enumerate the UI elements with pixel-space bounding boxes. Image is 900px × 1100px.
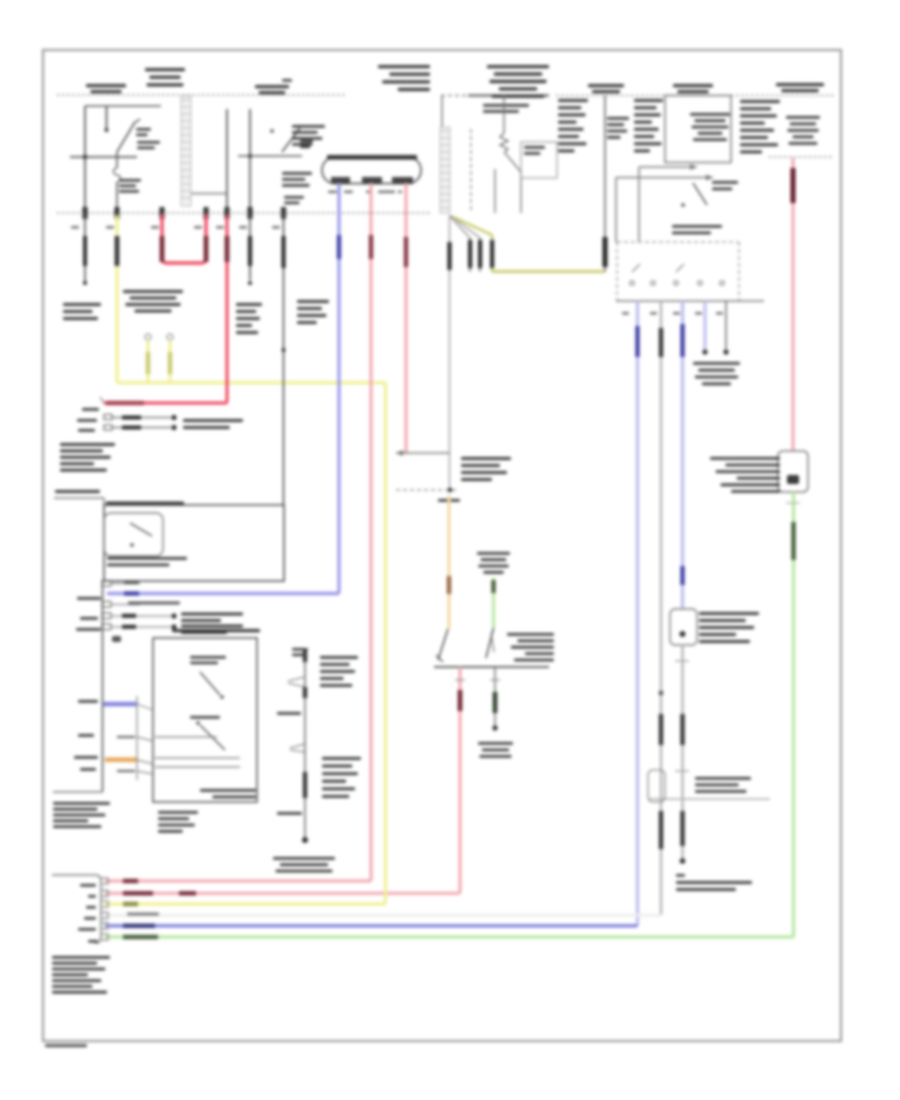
stub: dark into switch — [117, 736, 135, 738]
label: header center-left 4-line — [378, 65, 430, 91]
label: relay name 2-line — [524, 146, 545, 155]
label: right of small box 5-line — [699, 612, 759, 643]
wire: vertical x=442 below bus — [441, 96, 443, 128]
wire: arrow horizontal y=453 — [396, 450, 450, 456]
label: noise filter 3-line — [695, 777, 751, 793]
connector: pin bars on bus y=213 — [82, 207, 286, 219]
junction: ECU pin row 3 — [102, 602, 180, 608]
switch: relay switch diagonal — [681, 183, 707, 207]
relay: small box outline — [521, 142, 557, 178]
label: bottom connector name 7-line — [52, 956, 110, 994]
label: stadium title on top edge — [327, 155, 417, 160]
label: small left of stadium — [300, 140, 313, 148]
label: mid block right of 250 — [236, 303, 262, 334]
wire: vertical x=616 — [615, 178, 617, 243]
junction: diag ticks into box — [137, 704, 153, 774]
page border frame — [43, 50, 841, 1041]
switch: orange switch diagonal — [436, 629, 448, 662]
junction: ECU pin row 1 — [102, 581, 140, 587]
terminal: yellow stub 2 — [167, 334, 173, 382]
stub: dark into switch 2 — [117, 770, 135, 772]
wire: red x=227 long — [225, 215, 230, 403]
label: left of DRL relay 6-line — [710, 457, 780, 493]
wire: black x=283.5 long — [281, 215, 285, 505]
switch: head position contacts — [190, 656, 226, 699]
label: power source block 5-line — [60, 443, 115, 472]
bus: top dashed line right section — [556, 95, 836, 97]
label: switch box title — [172, 629, 260, 632]
wire: diagonal to x=521 — [505, 153, 521, 213]
wire: horizontal box top y=106 — [85, 105, 161, 107]
wire: blue horizontal y=925.8 bottom — [105, 924, 638, 928]
wire: fanout diagonals from band — [449, 215, 492, 238]
label: pin numbers under bus — [71, 226, 280, 229]
wire: inside box line 2 — [155, 757, 240, 759]
wire: yellow x=117 — [115, 215, 120, 383]
wire: black stub x=726 — [723, 301, 728, 355]
wire: vertical from bus x=85 — [84, 106, 86, 215]
stub: orange into switch — [105, 757, 137, 762]
wire: key stub x=106 — [105, 106, 109, 132]
relay: internal contacts — [630, 264, 724, 285]
bus: junction block bus line center — [441, 95, 549, 97]
wire: red x=371 vertical long — [369, 183, 373, 881]
label: right of 283 block — [297, 300, 329, 324]
label: ignition switch name — [136, 128, 151, 136]
label: ECU title on top edge — [106, 502, 184, 505]
label: header fuse block 3-line — [145, 68, 185, 87]
wire: black x=305 — [302, 648, 308, 843]
wire: black x=250 stub — [248, 215, 252, 285]
wire: inside box line 3 — [155, 766, 240, 768]
label: x305 low text — [277, 812, 302, 815]
wire: green horizontal y=937 bottom — [105, 935, 794, 939]
label: switch right 4-line — [292, 125, 325, 146]
wire: pin column x=137 — [136, 696, 138, 780]
label: ignition switch terminal — [137, 141, 160, 149]
label: inside DRL box 5-line — [690, 113, 730, 141]
wire: vertical x=227 from y=109 — [226, 109, 228, 215]
wire: yellow x=385.5 vertical — [384, 383, 387, 904]
wire: arrow line y=167 — [639, 164, 697, 170]
wire: yellow horizontal y=904 bottom — [105, 902, 386, 906]
wire: black x=85 below bus — [83, 213, 87, 285]
connector: small box x=682 — [670, 609, 697, 645]
switch: dimmer contacts — [190, 716, 225, 750]
wire: vertical x=495 — [494, 169, 496, 213]
label: x305 top text — [292, 648, 308, 656]
connector: pin bumps — [101, 878, 108, 940]
wire: red horizontal y=893.3 bottom — [105, 891, 460, 895]
label: stadium pin row — [328, 191, 402, 194]
bus: dashed line under right header — [769, 156, 832, 158]
switch: bar y=667 — [434, 666, 549, 668]
label: row left b — [80, 617, 98, 620]
label: junction rows left b — [77, 419, 97, 422]
label: x305 mid text — [277, 712, 301, 715]
wire: red x=406 vertical — [404, 183, 408, 453]
terminal: yellow stub 1 — [145, 334, 152, 383]
wire: ECU left edge down x=102.5 — [102, 581, 104, 792]
label: connector pin numbers — [78, 884, 98, 943]
connector: bottom-left half-shell — [52, 875, 101, 943]
switch: diagonal contact — [270, 128, 300, 152]
label: row left c — [76, 628, 101, 631]
wire: ECU bottom line left — [53, 791, 103, 793]
label: fuse AM2 2-line — [483, 104, 529, 113]
label: row4 right 2-line — [181, 613, 243, 623]
label: under switch box 4-line — [158, 811, 198, 833]
wire: black x=495 below bar — [490, 667, 500, 731]
label: row5 right 2-line — [181, 625, 243, 635]
junction: row 2 — [104, 425, 177, 430]
label: relay right 2-line — [712, 181, 738, 190]
label: header right 3 — [776, 83, 824, 92]
label: right col 1 8-line — [558, 99, 588, 152]
page number text bottom-left — [45, 1044, 87, 1047]
wire: inside box line 1 — [155, 736, 217, 738]
label: x305 right col 4-line — [320, 656, 358, 687]
fusible link: hatched band center — [440, 127, 450, 213]
wire: pink x=460 below bar — [455, 667, 465, 893]
fusible link: hatched band — [181, 96, 191, 206]
label: x=605 4-line — [607, 117, 629, 139]
label: right col 3 8-line — [740, 100, 780, 153]
junction: tick marks on x305 — [288, 677, 305, 752]
switch: green switch diagonal — [486, 628, 494, 658]
label: junction rows left c — [78, 429, 95, 432]
label: small box above ECU — [54, 490, 104, 505]
stub: blue into switch — [103, 702, 137, 707]
wire: component leg x=504 — [503, 96, 505, 134]
wire: vertical x=639 upper — [638, 167, 640, 242]
box: relay block dashed — [617, 242, 739, 301]
label: relay pin row — [622, 312, 723, 315]
label: inside box bottom right — [200, 789, 256, 798]
wire: blue x=339 vertical — [337, 183, 341, 594]
box: relay block bottom solid — [616, 300, 764, 302]
wire: horizontal y=157 — [70, 155, 137, 160]
connector: stadium bottom tabs — [331, 177, 413, 184]
wire: white horizontal y=915.3 bottom — [105, 913, 661, 916]
wire: vertical x=250 from y=109 — [249, 109, 251, 215]
wire: green x=493.5 upper — [491, 578, 495, 628]
wire: band bottom to x=227 link — [191, 193, 227, 195]
wire: blue x=682.5 upper — [680, 301, 684, 609]
label: under stubs 4-line — [693, 362, 740, 385]
box: daytime running light relay main — [665, 96, 731, 163]
label: below-switch text b — [284, 196, 304, 204]
wire: green x=793.5 long — [786, 492, 800, 937]
bus: dashed connector line y=213 — [57, 212, 430, 214]
label: above relay block 2-line — [672, 225, 722, 234]
switch: ignition switch diagonal — [117, 119, 140, 152]
junction: ECU pin row 5 — [102, 624, 177, 630]
label: ECU inner text rows — [107, 557, 187, 566]
wire: gray x=682.5 lower — [675, 645, 689, 864]
connector: three dark pins — [468, 235, 494, 272]
label: right box 5-line — [786, 116, 820, 145]
label: under dot 3-line centered — [273, 857, 335, 872]
wire: orange x=449 — [447, 495, 451, 629]
fuse: symbol on x=117 — [114, 152, 121, 215]
wire: yellow horizontal y=382.7 — [117, 381, 386, 384]
connector: DRL no2 relay box — [778, 451, 808, 492]
label: header right 2 — [673, 84, 713, 93]
label: row left a — [77, 597, 101, 600]
wire: bracket line y=799 — [648, 798, 770, 800]
box: combination light switch — [153, 638, 257, 802]
wire: switch base y=156 — [238, 154, 302, 158]
label: junction rows left a — [82, 408, 99, 411]
bus: short dashed y=490 — [396, 488, 458, 492]
connector: combination meter stadium — [322, 157, 421, 184]
wire: blue horizontal y=593.5 — [107, 591, 339, 595]
connector: small blob — [112, 636, 121, 642]
label: right col 2 8-line — [634, 99, 663, 152]
label: x305 right col low 6-line — [322, 757, 361, 798]
label: under gray dot 3-line — [676, 874, 752, 891]
wire: olive horizontal y=271.5 — [492, 270, 605, 273]
wire: red U-shape — [160, 214, 209, 263]
label: fuse text mid — [123, 290, 183, 313]
label: fog relay 4-line — [461, 457, 511, 481]
wire: vertical x=605 with pin — [602, 96, 607, 272]
label: switch assembly right 5-line — [507, 633, 554, 661]
label: left block 3-line — [63, 303, 101, 320]
fuse: zigzag element — [500, 133, 508, 153]
label: header battery left — [86, 84, 126, 93]
wire: vertical x=449.5 fog feed — [447, 217, 451, 490]
box: main body ECU — [104, 505, 284, 581]
label: bottom-left block 5-line — [53, 802, 110, 828]
label: junction rows right — [183, 419, 243, 429]
wire: red horizontal y=881 bottom — [105, 879, 371, 883]
label: header right 1 — [588, 84, 624, 93]
connector: noise filter box — [648, 770, 665, 802]
wire: red horizontal y=403 to junction rows — [100, 397, 227, 405]
label: header AM1 fuse — [255, 79, 292, 94]
bus: top dashed line left section y=95 — [57, 94, 345, 96]
relay: ECU internal rounded box — [104, 513, 163, 556]
junction: row 1 — [104, 415, 177, 421]
label: left pin texts — [74, 700, 98, 771]
label: fuse name 2-line — [119, 179, 141, 193]
label: header engine room junction block — [487, 65, 549, 98]
label: below-switch text a — [282, 172, 312, 187]
wire: dashed vertical x=471 — [470, 129, 472, 213]
label: below black dot 3-line — [478, 742, 513, 758]
wire: arrow line y=177.5 — [616, 175, 713, 181]
wire: blue stub x=705 — [702, 301, 707, 355]
label: small pin text — [438, 499, 460, 502]
wire: blue x=637.5 long — [635, 301, 639, 926]
junction: ECU pin row 4 — [102, 613, 177, 619]
wire: gray x=661 long — [659, 301, 664, 915]
wire: red x=793 upper — [790, 158, 795, 451]
label: green wire label 4-line — [477, 552, 510, 574]
